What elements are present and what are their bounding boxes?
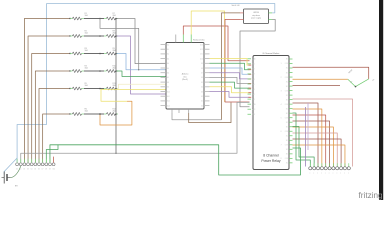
- pin U3 OUT+: [269, 12, 273, 14]
- wire yellow IC top to power verticals: [191, 11, 224, 102]
- relay module K1 8 channel: [253, 56, 289, 170]
- motor M1 pins: [348, 79, 356, 86]
- svg-text:IN5: IN5: [252, 84, 255, 86]
- wire red to motor: [293, 67, 369, 79]
- node row 3 input: [69, 53, 70, 54]
- wire divider output row 5: [99, 88, 101, 90]
- svg-text:NO: NO: [286, 154, 288, 156]
- wire divider output row 1: [99, 18, 101, 20]
- pins U1 left: [161, 44, 167, 46]
- svg-text:COM: COM: [285, 145, 288, 147]
- wire IN2: [210, 63, 250, 69]
- wire brown to power box IN+: [222, 13, 241, 120]
- svg-text:D8: D8: [201, 68, 203, 70]
- wire green bus B join: [46, 145, 58, 163]
- svg-text:8 Channel: 8 Channel: [263, 154, 279, 158]
- wire row 5 mid: [84, 88, 104, 90]
- svg-text:Volt 4 LM: Volt 4 LM: [232, 4, 240, 7]
- svg-text:D0: D0: [16, 169, 18, 171]
- node row 1 input: [69, 18, 70, 19]
- wire relay out 8: [293, 145, 345, 167]
- svg-text:Reduced Uno: Reduced Uno: [193, 39, 205, 41]
- wire divider output row 4: [99, 70, 101, 72]
- wire pink tall: [293, 99, 353, 167]
- pins U1 right: [204, 44, 210, 46]
- svg-text:IN8: IN8: [252, 99, 255, 101]
- wire orange to motor: [293, 78, 348, 80]
- svg-text:IN1: IN1: [252, 64, 255, 66]
- svg-text:D8: D8: [45, 169, 47, 171]
- wire row 3 mid: [84, 53, 104, 55]
- junction grey-blue: [138, 69, 139, 70]
- node row 6 divider: [99, 113, 101, 115]
- svg-text:COM: COM: [285, 63, 288, 65]
- junction ground chain: [115, 18, 117, 20]
- svg-text:D9: D9: [201, 63, 203, 65]
- resistor R5 1kΩ: [70, 88, 73, 90]
- wire relay out 4: [293, 121, 330, 167]
- resistor R8 2kΩ: [104, 35, 107, 37]
- svg-text:D6: D6: [201, 77, 203, 79]
- svg-text:NC: NC: [286, 81, 288, 83]
- svg-text:LM2596: LM2596: [253, 12, 259, 14]
- wire IN3: [210, 68, 250, 74]
- node row 5 divider: [99, 88, 101, 90]
- battery BT1 9V: [2, 177, 5, 179]
- resistor R11 2kΩ: [104, 88, 107, 90]
- header J1: [16, 163, 19, 166]
- wire dark loop power box out- to relay VCC: [240, 19, 275, 106]
- resistor R2 1kΩ: [70, 35, 73, 37]
- wire blue left rail: [17, 4, 46, 163]
- node row 2 divider: [99, 35, 101, 37]
- wire relay out 1: [293, 103, 319, 167]
- op-amp U1 Arduino Uno reduced: [166, 43, 204, 110]
- svg-text:D2: D2: [23, 169, 25, 171]
- wire brown IC bottom: [189, 103, 231, 123]
- svg-text:D7: D7: [201, 73, 203, 75]
- svg-text:COM: COM: [285, 117, 288, 119]
- svg-text:NO: NO: [286, 59, 288, 61]
- svg-text:step-down: step-down: [252, 14, 260, 17]
- wire feed row 5: [39, 89, 70, 163]
- wire green relay out B: [293, 127, 315, 167]
- svg-text:NC: NC: [286, 135, 288, 137]
- wire IN6: [210, 82, 250, 88]
- svg-text:NC: NC: [286, 95, 288, 97]
- wire yellow row 6 output: [101, 89, 166, 101]
- svg-text:D1: D1: [201, 101, 203, 103]
- wire ground chain vertical: [115, 19, 117, 154]
- svg-text:NO: NO: [286, 72, 288, 74]
- resistor R3 1kΩ: [70, 53, 73, 55]
- svg-text:8 Channel Relais: 8 Channel Relais: [263, 53, 281, 55]
- svg-text:D4: D4: [201, 87, 203, 89]
- wire IN5: [210, 77, 250, 83]
- wire battery to J1 pin2: [11, 166, 21, 178]
- pins J1 green stubs: [16, 159, 18, 163]
- wire feed row 2: [28, 36, 70, 162]
- svg-text:Power Relay: Power Relay: [261, 159, 281, 163]
- svg-text:COM: COM: [285, 77, 288, 79]
- voltage regulator U3 step-down power supply: [244, 9, 269, 24]
- svg-text:JDV: JDV: [252, 114, 255, 116]
- pins K1 left: [248, 58, 252, 60]
- header J2 screw terminal: [309, 167, 312, 170]
- wire relay out 5: [293, 127, 334, 167]
- wire relay out 6: [293, 133, 338, 167]
- svg-text:IN2: IN2: [252, 69, 255, 71]
- wire red IC top to relay GND1: [183, 26, 249, 61]
- wire row 6 mid: [84, 113, 104, 115]
- svg-text:fritzing: fritzing: [359, 191, 384, 200]
- node row 3 divider: [99, 53, 101, 55]
- svg-text:COM: COM: [285, 158, 288, 160]
- resistor R12 2kΩ: [104, 113, 107, 115]
- junction ground chain: [115, 35, 117, 37]
- resistor R7 2kΩ: [104, 18, 107, 20]
- node row 2 input: [69, 35, 70, 36]
- node row6 divider: [99, 113, 101, 115]
- wire green bus upper: [50, 145, 301, 175]
- resistor R4 1kΩ: [70, 70, 73, 72]
- wire feed row 1: [24, 19, 70, 163]
- resistor R1 1kΩ: [70, 18, 73, 20]
- wire brown stub: [293, 85, 341, 87]
- svg-text:D5: D5: [201, 82, 203, 84]
- pins U1 bottom: [171, 109, 173, 113]
- wire row 4 mid: [84, 70, 104, 72]
- svg-text:D13: D13: [200, 44, 203, 46]
- wire IN7: [210, 87, 250, 93]
- junction ground chain row6: [115, 113, 117, 115]
- wire ground bus grey: [21, 102, 250, 162]
- wire grey row1 junction loop: [100, 19, 139, 70]
- wire IN1: [210, 59, 250, 66]
- node row 6 input: [69, 113, 70, 114]
- pin U1 top yellow: [190, 35, 192, 43]
- wire blue to battery: [4, 158, 17, 175]
- node row 4 divider: [99, 70, 101, 72]
- svg-text:NC: NC: [286, 163, 288, 165]
- svg-text:D9: D9: [49, 169, 51, 171]
- svg-text:D11: D11: [200, 54, 203, 56]
- pin U3 IN-: [240, 18, 244, 20]
- wire IN8: [210, 92, 250, 98]
- wire row 2 mid: [84, 35, 104, 37]
- svg-text:(Rev3): (Rev3): [182, 79, 188, 81]
- pin U1 top red: [182, 35, 184, 43]
- svg-text:D0: D0: [201, 105, 203, 107]
- resistor R6 1kΩ: [70, 113, 73, 115]
- node row 4 input: [69, 70, 70, 71]
- svg-text:NO: NO: [286, 126, 288, 128]
- svg-text:NC: NC: [286, 122, 288, 124]
- wire divider output row 3: [99, 53, 101, 55]
- node motor vertex: [355, 86, 357, 88]
- svg-text:NC: NC: [286, 149, 288, 151]
- svg-text:NC: NC: [286, 108, 288, 110]
- node row 5 input: [69, 88, 70, 89]
- svg-text:NO: NO: [286, 86, 288, 88]
- svg-text:D12: D12: [200, 49, 203, 51]
- svg-text:Uno: Uno: [183, 76, 186, 78]
- pin U1 top unconnected: [175, 35, 177, 43]
- wire green relay out A: [293, 113, 311, 167]
- svg-text:Arduino: Arduino: [182, 73, 189, 76]
- wire relay out 7: [293, 139, 342, 167]
- wire red stub J1: [53, 157, 55, 163]
- svg-text:power supply: power supply: [251, 17, 261, 20]
- svg-text:D10: D10: [200, 58, 203, 60]
- svg-text:COM: COM: [285, 90, 288, 92]
- junction ground bus chain: [115, 153, 116, 154]
- wire relay out 2: [293, 109, 322, 167]
- wire red to power box IN- and relay GND: [225, 19, 250, 102]
- wire feed row 4: [35, 71, 70, 162]
- wire grey IC bottom: [172, 113, 222, 120]
- resistor R9 2kΩ: [104, 53, 107, 55]
- svg-text:NC: NC: [286, 68, 288, 70]
- window edge bar: [379, 0, 383, 200]
- resistor R10 2kΩ: [104, 70, 107, 72]
- wire violet vertical 1: [305, 107, 307, 167]
- wire relay out 3: [293, 115, 326, 167]
- svg-text:NO: NO: [286, 140, 288, 142]
- svg-text:D1: D1: [20, 169, 22, 171]
- svg-text:D10: D10: [53, 169, 56, 171]
- wire IN4: [210, 73, 250, 79]
- pin U3 IN+: [240, 12, 244, 14]
- svg-text:D5: D5: [34, 169, 36, 171]
- pins K1 right: [289, 58, 293, 60]
- svg-text:IN7: IN7: [252, 94, 255, 96]
- wire feed row 3: [32, 54, 70, 163]
- svg-text:D3: D3: [27, 169, 29, 171]
- pins J2 green stubs: [309, 163, 311, 167]
- svg-text:D4: D4: [31, 169, 33, 171]
- wire violet vertical 2: [307, 103, 309, 150]
- svg-text:IN4: IN4: [252, 79, 255, 81]
- svg-text:D2: D2: [201, 96, 203, 98]
- svg-text:D7: D7: [42, 169, 44, 171]
- svg-text:D3: D3: [201, 91, 203, 93]
- svg-text:IN3: IN3: [252, 74, 255, 76]
- wire divider output row 2: [99, 35, 101, 37]
- svg-text:COM: COM: [285, 104, 288, 106]
- wire orange loop row 6: [100, 101, 132, 125]
- junction ground chain: [115, 88, 117, 90]
- svg-text:NO: NO: [286, 113, 288, 115]
- wire blue top rail: [47, 4, 275, 13]
- svg-text:IN6: IN6: [252, 89, 255, 91]
- wire row 1 mid: [84, 18, 104, 20]
- svg-text:D6: D6: [38, 169, 40, 171]
- node row 1 divider: [99, 18, 101, 20]
- svg-text:NO: NO: [286, 99, 288, 101]
- svg-text:COM: COM: [285, 131, 288, 133]
- junction ground chain: [115, 70, 117, 72]
- wire feed row 6: [43, 114, 70, 162]
- pin U3 OUT-: [269, 18, 273, 20]
- junction ground chain: [115, 53, 117, 55]
